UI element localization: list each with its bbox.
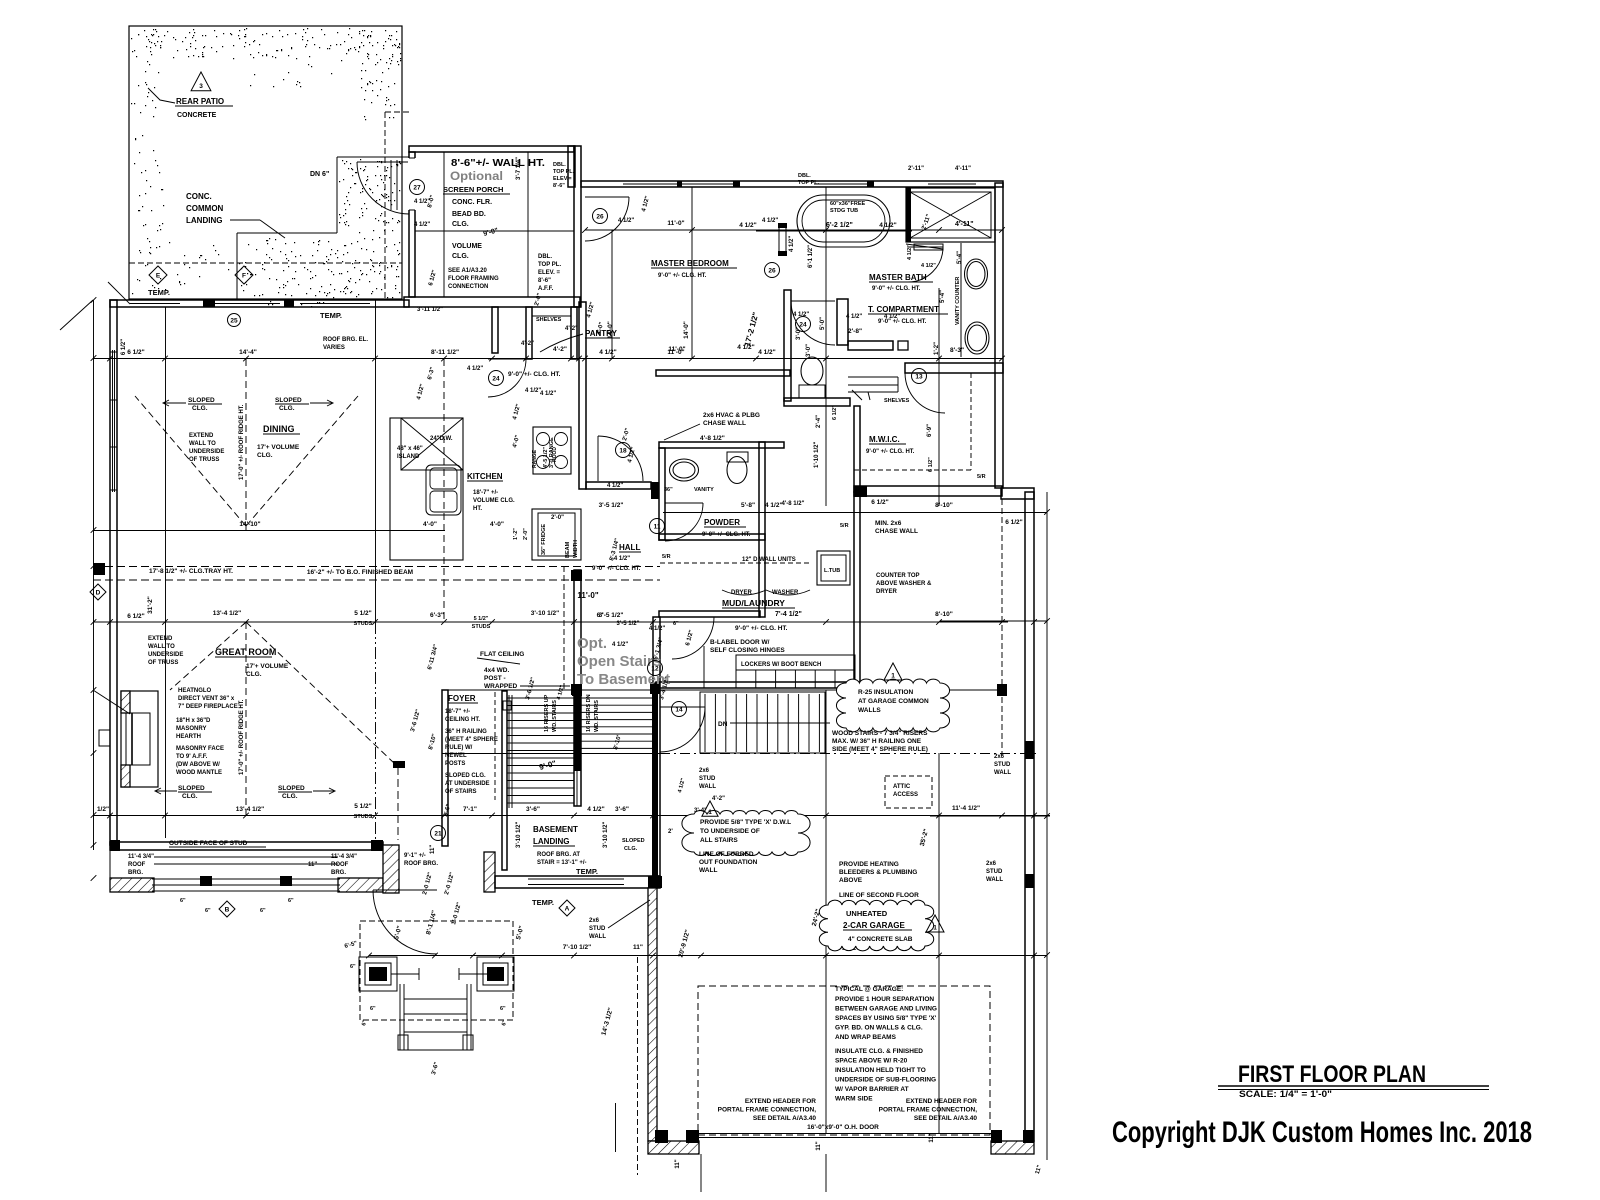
svg-text:WALLS: WALLS bbox=[858, 707, 881, 714]
svg-text:3'-10 1/2": 3'-10 1/2" bbox=[516, 822, 522, 848]
svg-text:11": 11" bbox=[633, 944, 643, 951]
svg-text:6 1/2": 6 1/2" bbox=[928, 457, 934, 472]
svg-text:11'-0": 11'-0" bbox=[668, 346, 685, 353]
svg-text:KITCHEN: KITCHEN bbox=[467, 472, 503, 481]
svg-text:SCREEN PORCH: SCREEN PORCH bbox=[443, 185, 503, 194]
svg-text:SELF CLOSING HINGES: SELF CLOSING HINGES bbox=[710, 647, 785, 654]
svg-text:TEMP.: TEMP. bbox=[576, 867, 598, 876]
svg-text:INSULATE CLG. & FINISHED: INSULATE CLG. & FINISHED bbox=[835, 1048, 923, 1055]
svg-text:4 1/2": 4 1/2" bbox=[607, 483, 623, 489]
svg-text:DN: DN bbox=[718, 721, 728, 728]
svg-text:16'-2" +/- TO B.O. FINISHED BE: 16'-2" +/- TO B.O. FINISHED BEAM bbox=[307, 569, 413, 576]
svg-text:RULE) W/: RULE) W/ bbox=[445, 745, 473, 751]
svg-text:CLG.: CLG. bbox=[452, 221, 469, 228]
svg-text:26: 26 bbox=[596, 213, 604, 220]
svg-text:6'-3": 6'-3" bbox=[430, 612, 444, 619]
svg-text:(DW ABOVE W/: (DW ABOVE W/ bbox=[176, 762, 220, 768]
svg-text:31'-2": 31'-2" bbox=[147, 596, 154, 614]
svg-text:2x6: 2x6 bbox=[699, 768, 710, 774]
svg-text:STAIR = 13'-1" +/-: STAIR = 13'-1" +/- bbox=[537, 860, 587, 866]
svg-text:CHASE WALL: CHASE WALL bbox=[875, 528, 918, 535]
svg-text:EXTEND: EXTEND bbox=[189, 433, 214, 439]
svg-text:DRYER: DRYER bbox=[731, 590, 752, 596]
svg-text:SHELVES: SHELVES bbox=[884, 398, 910, 404]
svg-text:5 1/2": 5 1/2" bbox=[354, 610, 372, 617]
svg-text:ACCESS: ACCESS bbox=[893, 792, 918, 798]
svg-text:4 1/2": 4 1/2" bbox=[612, 642, 628, 648]
svg-text:UNDERSIDE: UNDERSIDE bbox=[148, 652, 183, 658]
svg-text:HEATNGLO: HEATNGLO bbox=[178, 688, 212, 694]
svg-text:SLOPED: SLOPED bbox=[188, 397, 215, 404]
svg-text:ABOVE: ABOVE bbox=[839, 877, 863, 884]
svg-text:CLG.: CLG. bbox=[279, 405, 295, 412]
svg-text:GREAT ROOM: GREAT ROOM bbox=[215, 647, 276, 657]
svg-text:9'-0" +/- CLG. HT.: 9'-0" +/- CLG. HT. bbox=[508, 371, 561, 378]
svg-text:3'-5 1/2": 3'-5 1/2" bbox=[599, 612, 624, 619]
svg-text:11": 11" bbox=[308, 862, 317, 868]
svg-text:VOLUME: VOLUME bbox=[452, 243, 482, 250]
svg-text:REAR PATIO: REAR PATIO bbox=[176, 97, 224, 106]
svg-text:4 1/2": 4 1/2" bbox=[618, 218, 634, 224]
svg-text:9'-0" +/- CLG. HT.: 9'-0" +/- CLG. HT. bbox=[872, 286, 921, 292]
svg-text:12: 12 bbox=[651, 665, 659, 672]
svg-text:Copyright DJK Custom Homes Inc: Copyright DJK Custom Homes Inc. 2018 bbox=[1112, 1116, 1532, 1149]
svg-text:TO 9' A.F.F.: TO 9' A.F.F. bbox=[176, 754, 208, 760]
svg-text:R-25 INSULATION: R-25 INSULATION bbox=[858, 689, 913, 696]
svg-text:WALL TO: WALL TO bbox=[148, 644, 175, 650]
svg-text:TOP PL.: TOP PL. bbox=[798, 180, 820, 186]
svg-text:SIDE (MEET 4" SPHERE RULE): SIDE (MEET 4" SPHERE RULE) bbox=[832, 746, 928, 753]
svg-text:5/R: 5/R bbox=[840, 523, 849, 529]
svg-text:DBL.: DBL. bbox=[798, 173, 811, 179]
svg-text:LINE OF FURRED: LINE OF FURRED bbox=[699, 851, 754, 858]
svg-text:6": 6" bbox=[350, 964, 356, 970]
svg-text:17'-0" +/- ROOF RIDGE HT.: 17'-0" +/- ROOF RIDGE HT. bbox=[239, 404, 245, 480]
svg-text:WALL: WALL bbox=[994, 770, 1011, 776]
svg-text:BEAD BD.: BEAD BD. bbox=[452, 211, 486, 218]
svg-text:9'-0" +/- CLG. HT.: 9'-0" +/- CLG. HT. bbox=[866, 449, 915, 455]
svg-text:48" x 46": 48" x 46" bbox=[397, 446, 423, 452]
svg-text:BLEEDERS & PLUMBING: BLEEDERS & PLUMBING bbox=[839, 869, 917, 876]
svg-text:STUD: STUD bbox=[699, 776, 716, 782]
svg-text:4" CONCRETE SLAB: 4" CONCRETE SLAB bbox=[848, 936, 913, 943]
svg-text:4 1/2": 4 1/2" bbox=[467, 366, 483, 372]
svg-text:PROVIDE HEATING: PROVIDE HEATING bbox=[839, 861, 899, 868]
svg-text:14'-0": 14'-0" bbox=[683, 321, 690, 339]
svg-text:CHASE WALL: CHASE WALL bbox=[703, 420, 746, 427]
svg-text:VANITY: VANITY bbox=[694, 487, 714, 493]
svg-text:11'-4 3/4": 11'-4 3/4" bbox=[331, 854, 357, 860]
svg-text:WRAPPED: WRAPPED bbox=[484, 683, 518, 690]
svg-text:OUT FOUNDATION: OUT FOUNDATION bbox=[699, 859, 758, 866]
svg-text:8'-10": 8'-10" bbox=[935, 502, 953, 509]
svg-text:6": 6" bbox=[260, 908, 266, 914]
svg-text:3'-6": 3'-6" bbox=[615, 806, 629, 813]
svg-text:WOOD STAIRS - 7 3/4" RISERS: WOOD STAIRS - 7 3/4" RISERS bbox=[832, 730, 928, 737]
svg-text:FLAT CEILING: FLAT CEILING bbox=[480, 651, 524, 658]
svg-text:M.W.I.C.: M.W.I.C. bbox=[869, 435, 900, 444]
svg-text:18'-7" +/-: 18'-7" +/- bbox=[445, 709, 470, 715]
svg-text:3'-10 1/2": 3'-10 1/2" bbox=[531, 610, 559, 617]
svg-text:CONCRETE: CONCRETE bbox=[177, 112, 217, 119]
svg-text:A.F.F.: A.F.F. bbox=[538, 286, 554, 292]
svg-text:LANDING: LANDING bbox=[533, 837, 569, 846]
svg-text:F: F bbox=[242, 272, 246, 279]
svg-text:CLG.: CLG. bbox=[624, 846, 638, 852]
svg-text:STUD: STUD bbox=[986, 869, 1003, 875]
svg-text:3'-11 1/2": 3'-11 1/2" bbox=[417, 307, 443, 313]
svg-text:UNDERSIDE OF SUB-FLOORING: UNDERSIDE OF SUB-FLOORING bbox=[835, 1077, 936, 1084]
svg-text:TEMP.: TEMP. bbox=[148, 288, 170, 297]
svg-text:Open Stairs: Open Stairs bbox=[577, 653, 661, 670]
svg-text:4'-2": 4'-2" bbox=[521, 341, 534, 347]
svg-text:T. COMPARTMENT: T. COMPARTMENT bbox=[868, 305, 939, 314]
svg-text:1/2": 1/2" bbox=[97, 806, 109, 813]
svg-text:VOLUME CLG.: VOLUME CLG. bbox=[473, 498, 515, 504]
svg-text:ISLAND: ISLAND bbox=[397, 454, 420, 460]
svg-text:6'-1 1/2": 6'-1 1/2" bbox=[808, 245, 814, 268]
svg-text:4'-2": 4'-2" bbox=[712, 796, 725, 802]
svg-text:36" FRIDGE: 36" FRIDGE bbox=[541, 524, 547, 555]
svg-text:1'-10 1/2": 1'-10 1/2" bbox=[814, 442, 820, 468]
svg-text:ATTIC: ATTIC bbox=[893, 784, 911, 790]
svg-text:MASTER BATH: MASTER BATH bbox=[869, 273, 927, 282]
svg-text:2'-4": 2'-4" bbox=[816, 415, 822, 428]
svg-text:1'-2": 1'-2" bbox=[513, 528, 519, 540]
svg-text:TOP PL.: TOP PL. bbox=[553, 169, 575, 175]
svg-text:8'-6"+/- WALL HT.: 8'-6"+/- WALL HT. bbox=[451, 158, 545, 169]
svg-text:CLG.: CLG. bbox=[246, 671, 262, 678]
svg-text:WARM SIDE: WARM SIDE bbox=[835, 1096, 873, 1103]
svg-text:B: B bbox=[225, 906, 230, 913]
svg-text:9'-0" +/- CLG. HT.: 9'-0" +/- CLG. HT. bbox=[702, 532, 751, 538]
svg-text:3'-0": 3'-0" bbox=[806, 344, 812, 357]
svg-text:WD. STAIRS: WD. STAIRS bbox=[552, 700, 558, 732]
svg-text:26: 26 bbox=[768, 267, 776, 274]
svg-text:18'-7" +/-: 18'-7" +/- bbox=[473, 490, 498, 496]
svg-text:TO UNDERSIDE OF: TO UNDERSIDE OF bbox=[700, 828, 760, 835]
svg-text:E: E bbox=[156, 272, 161, 279]
svg-text:POST -: POST - bbox=[484, 675, 506, 682]
svg-text:SLOPED: SLOPED bbox=[278, 785, 305, 792]
svg-text:DBL.: DBL. bbox=[553, 162, 566, 168]
svg-text:Optional: Optional bbox=[450, 169, 503, 183]
svg-text:1: 1 bbox=[933, 925, 937, 932]
svg-text:W/ VAPOR BARRIER AT: W/ VAPOR BARRIER AT bbox=[835, 1086, 909, 1093]
svg-text:ROOF BRG. AT: ROOF BRG. AT bbox=[537, 852, 580, 858]
svg-text:2x6: 2x6 bbox=[589, 918, 600, 924]
svg-text:MIN. 2x6: MIN. 2x6 bbox=[875, 520, 902, 527]
svg-text:24: 24 bbox=[799, 321, 807, 328]
svg-text:ROOF: ROOF bbox=[331, 862, 349, 868]
svg-text:5/R: 5/R bbox=[977, 474, 986, 480]
svg-text:4 1/2": 4 1/2" bbox=[846, 314, 862, 320]
svg-text:3'-4": 3'-4" bbox=[694, 808, 707, 814]
svg-text:HALL: HALL bbox=[619, 543, 640, 552]
svg-text:4 1/2": 4 1/2" bbox=[739, 222, 757, 229]
svg-text:(MEET 4" SPHERE: (MEET 4" SPHERE bbox=[445, 737, 498, 743]
svg-text:3: 3 bbox=[199, 83, 203, 90]
svg-text:27: 27 bbox=[413, 184, 421, 191]
svg-text:CLG.: CLG. bbox=[452, 253, 469, 260]
svg-text:BRG.: BRG. bbox=[128, 870, 143, 876]
svg-text:WALL: WALL bbox=[589, 934, 606, 940]
svg-text:8'-10": 8'-10" bbox=[935, 611, 953, 618]
svg-text:EXTEND HEADER FOR: EXTEND HEADER FOR bbox=[745, 1098, 816, 1105]
svg-text:1: 1 bbox=[891, 673, 895, 680]
svg-text:D: D bbox=[96, 589, 101, 596]
svg-text:17'+ VOLUME: 17'+ VOLUME bbox=[246, 663, 289, 670]
svg-text:OF STAIRS: OF STAIRS bbox=[445, 789, 477, 795]
svg-text:5/R: 5/R bbox=[662, 554, 671, 560]
svg-text:2'-8": 2'-8" bbox=[848, 328, 862, 335]
svg-text:MUD/LAUNDRY: MUD/LAUNDRY bbox=[722, 598, 785, 608]
svg-text:SEE A1/A3.20: SEE A1/A3.20 bbox=[448, 268, 487, 274]
svg-text:11": 11" bbox=[929, 1133, 935, 1142]
svg-text:EXTEND HEADER FOR: EXTEND HEADER FOR bbox=[906, 1098, 977, 1105]
svg-text:11'-4 1/2": 11'-4 1/2" bbox=[952, 805, 980, 812]
svg-text:ELEV. =: ELEV. = bbox=[538, 270, 560, 276]
svg-text:BETWEEN GARAGE AND LIVING: BETWEEN GARAGE AND LIVING bbox=[835, 1006, 937, 1013]
svg-text:4'-0": 4'-0" bbox=[490, 521, 504, 528]
svg-text:BASEMENT: BASEMENT bbox=[533, 825, 578, 834]
svg-text:2x6 HVAC & PLBG: 2x6 HVAC & PLBG bbox=[703, 412, 760, 419]
svg-text:6'-9": 6'-9" bbox=[927, 424, 933, 437]
svg-text:4 1/2": 4 1/2" bbox=[414, 222, 430, 228]
svg-text:6 1/2": 6 1/2" bbox=[871, 499, 889, 506]
svg-text:6 1/2": 6 1/2" bbox=[127, 613, 145, 620]
svg-text:AT GARAGE COMMON: AT GARAGE COMMON bbox=[858, 698, 929, 705]
svg-text:7" DEEP FIREPLACE: 7" DEEP FIREPLACE bbox=[178, 704, 238, 710]
svg-text:16 RISERS UP: 16 RISERS UP bbox=[544, 694, 550, 732]
svg-text:STUDS: STUDS bbox=[354, 621, 373, 627]
svg-text:1'-2": 1'-2" bbox=[934, 342, 940, 355]
svg-text:BRG.: BRG. bbox=[331, 870, 346, 876]
svg-text:4'-2": 4'-2" bbox=[565, 326, 578, 332]
svg-text:5'-4": 5'-4" bbox=[940, 290, 946, 303]
svg-text:4 1/2": 4 1/2" bbox=[540, 391, 556, 397]
svg-text:18"H x 36"D: 18"H x 36"D bbox=[176, 718, 211, 724]
svg-text:8'-6": 8'-6" bbox=[538, 278, 551, 284]
svg-text:STUD: STUD bbox=[589, 926, 606, 932]
svg-text:SLOPED: SLOPED bbox=[622, 838, 645, 844]
svg-text:4'-8 1/2": 4'-8 1/2" bbox=[700, 435, 725, 442]
svg-text:ROOF BRG.: ROOF BRG. bbox=[404, 861, 438, 867]
svg-text:WALL: WALL bbox=[986, 877, 1003, 883]
svg-text:RANGE: RANGE bbox=[532, 449, 538, 468]
svg-text:9'-0" +/- CLG. HT.: 9'-0" +/- CLG. HT. bbox=[658, 273, 707, 279]
svg-text:4 1/2": 4 1/2" bbox=[762, 218, 778, 224]
svg-text:MAX. W/ 36" H RAILING ONE: MAX. W/ 36" H RAILING ONE bbox=[832, 738, 922, 745]
svg-text:SEE DETAIL A/A3.40: SEE DETAIL A/A3.40 bbox=[914, 1115, 977, 1122]
svg-text:11: 11 bbox=[654, 523, 661, 530]
svg-text:3'-5 1/2": 3'-5 1/2" bbox=[617, 621, 640, 627]
svg-text:6": 6" bbox=[500, 1006, 506, 1012]
svg-text:8'-3": 8'-3" bbox=[950, 347, 964, 354]
svg-text:2': 2' bbox=[668, 829, 673, 835]
svg-text:9'-0" +/- CLG. HT.: 9'-0" +/- CLG. HT. bbox=[592, 566, 641, 572]
svg-text:A: A bbox=[565, 905, 570, 912]
svg-text:13'-4 1/2": 13'-4 1/2" bbox=[213, 610, 241, 617]
svg-text:18: 18 bbox=[619, 447, 627, 454]
svg-text:9'-0" +/- CLG. HT.: 9'-0" +/- CLG. HT. bbox=[735, 625, 788, 632]
svg-text:SHELVES: SHELVES bbox=[536, 317, 562, 323]
svg-text:Opt.: Opt. bbox=[577, 635, 607, 652]
svg-text:WALL: WALL bbox=[699, 867, 717, 874]
svg-text:4 1/2": 4 1/2" bbox=[649, 626, 665, 632]
svg-text:8'-6": 8'-6" bbox=[553, 183, 565, 189]
svg-text:4'-11": 4'-11" bbox=[955, 166, 971, 172]
svg-text:ELEV.=: ELEV.= bbox=[553, 176, 572, 182]
svg-text:PROVIDE 5/8" TYPE 'X' D.W.L: PROVIDE 5/8" TYPE 'X' D.W.L bbox=[700, 819, 791, 826]
svg-text:2x6: 2x6 bbox=[986, 861, 997, 867]
svg-text:3'-10 1/2": 3'-10 1/2" bbox=[603, 822, 609, 848]
svg-text:4'-11": 4'-11" bbox=[955, 221, 974, 228]
svg-text:UNDERSIDE: UNDERSIDE bbox=[189, 449, 224, 455]
svg-text:4 1/2": 4 1/2" bbox=[758, 349, 776, 356]
svg-text:SLOPED CLG.: SLOPED CLG. bbox=[445, 773, 486, 779]
svg-text:3'-7 1/4": 3'-7 1/4" bbox=[516, 157, 522, 180]
svg-text:3'-6": 3'-6" bbox=[526, 806, 540, 813]
svg-text:4 1/2": 4 1/2" bbox=[587, 806, 605, 813]
svg-text:4x4 WD.: 4x4 WD. bbox=[484, 667, 509, 674]
svg-text:CLG.: CLG. bbox=[192, 405, 208, 412]
svg-text:6 1/2": 6 1/2" bbox=[121, 339, 127, 355]
svg-text:PORTAL FRAME CONNECTION,: PORTAL FRAME CONNECTION, bbox=[718, 1107, 817, 1114]
svg-text:WIDTH: WIDTH bbox=[573, 540, 579, 558]
svg-text:21: 21 bbox=[434, 830, 442, 837]
svg-text:NEWEL: NEWEL bbox=[445, 753, 467, 759]
svg-text:4 1/2": 4 1/2" bbox=[614, 556, 630, 562]
svg-text:4 1/2": 4 1/2" bbox=[599, 349, 617, 356]
svg-text:WALL: WALL bbox=[699, 784, 716, 790]
svg-text:6": 6" bbox=[370, 1006, 376, 1012]
svg-text:13: 13 bbox=[915, 373, 923, 380]
svg-text:STUDS: STUDS bbox=[472, 624, 491, 630]
svg-text:OUTSIDE FACE OF STUD: OUTSIDE FACE OF STUD bbox=[169, 840, 248, 847]
svg-text:6 1/2": 6 1/2" bbox=[1005, 519, 1023, 526]
svg-text:13'-4 1/2": 13'-4 1/2" bbox=[236, 806, 264, 813]
svg-text:17'-8 1/2" +/- CLG.TRAY HT.: 17'-8 1/2" +/- CLG.TRAY HT. bbox=[149, 568, 233, 575]
svg-text:POWDER: POWDER bbox=[704, 518, 740, 527]
svg-text:5'-8": 5'-8" bbox=[741, 502, 755, 509]
svg-text:AND WRAP BEAMS: AND WRAP BEAMS bbox=[835, 1034, 897, 1041]
svg-text:14: 14 bbox=[675, 706, 683, 713]
svg-text:2-CAR GARAGE: 2-CAR GARAGE bbox=[843, 921, 905, 930]
svg-text:MASONRY: MASONRY bbox=[176, 726, 206, 732]
svg-text:2x6: 2x6 bbox=[994, 754, 1005, 760]
svg-text:BEAM: BEAM bbox=[565, 541, 571, 558]
svg-text:14'-4": 14'-4" bbox=[239, 349, 257, 356]
svg-text:11": 11" bbox=[675, 1159, 681, 1168]
svg-text:To Basement: To Basement bbox=[577, 671, 670, 688]
svg-text:4 1/2": 4 1/2" bbox=[879, 222, 897, 229]
svg-text:UNHEATED: UNHEATED bbox=[846, 909, 888, 918]
svg-text:STDG TUB: STDG TUB bbox=[830, 208, 858, 214]
svg-text:24: 24 bbox=[492, 375, 500, 382]
svg-text:5 1/2": 5 1/2" bbox=[354, 803, 372, 810]
svg-text:11'-0": 11'-0" bbox=[667, 220, 684, 227]
svg-text:B-LABEL DOOR W/: B-LABEL DOOR W/ bbox=[710, 639, 770, 646]
svg-text:5'-4": 5'-4" bbox=[957, 251, 963, 264]
svg-text:14'-10": 14'-10" bbox=[239, 521, 260, 528]
svg-text:6": 6" bbox=[673, 621, 679, 627]
svg-text:DIRECT VENT 36" x: DIRECT VENT 36" x bbox=[178, 696, 235, 702]
svg-text:SCALE: 1/4" = 1'-0": SCALE: 1/4" = 1'-0" bbox=[1239, 1089, 1332, 1099]
svg-text:WOOD MANTLE: WOOD MANTLE bbox=[176, 770, 222, 776]
svg-text:4 1/2": 4 1/2" bbox=[765, 502, 783, 509]
svg-text:OF TRUSS: OF TRUSS bbox=[189, 457, 219, 463]
svg-text:LINE OF SECOND FLOOR: LINE OF SECOND FLOOR bbox=[839, 892, 919, 899]
svg-text:DN 6": DN 6" bbox=[310, 171, 329, 178]
svg-text:WALL TO: WALL TO bbox=[189, 441, 216, 447]
svg-text:11": 11" bbox=[816, 1141, 822, 1150]
svg-text:PROVIDE 1 HOUR SEPARATION: PROVIDE 1 HOUR SEPARATION bbox=[835, 996, 934, 1003]
svg-text:STUD: STUD bbox=[994, 762, 1011, 768]
svg-text:16'-0"x9'-0" O.H. DOOR: 16'-0"x9'-0" O.H. DOOR bbox=[807, 1124, 879, 1131]
svg-text:17'+ VOLUME: 17'+ VOLUME bbox=[257, 444, 300, 451]
svg-text:OF TRUSS: OF TRUSS bbox=[148, 660, 178, 666]
svg-text:STUDS: STUDS bbox=[354, 814, 373, 820]
svg-text:FLOOR FRAMING: FLOOR FRAMING bbox=[448, 276, 499, 282]
svg-text:GYP. BD. ON WALLS & CLG.: GYP. BD. ON WALLS & CLG. bbox=[835, 1025, 923, 1032]
svg-text:DRYER: DRYER bbox=[876, 589, 897, 595]
svg-text:FOYER: FOYER bbox=[448, 694, 476, 703]
svg-text:SPACE ABOVE W/ R-20: SPACE ABOVE W/ R-20 bbox=[835, 1058, 908, 1065]
svg-text:25: 25 bbox=[230, 317, 238, 324]
svg-text:TEMP.: TEMP. bbox=[532, 898, 554, 907]
svg-text:LOCKERS W/ BOOT BENCH: LOCKERS W/ BOOT BENCH bbox=[741, 662, 821, 668]
svg-text:FIRST FLOOR PLAN: FIRST FLOOR PLAN bbox=[1238, 1061, 1426, 1088]
svg-text:16 RISERS DN: 16 RISERS DN bbox=[586, 694, 592, 732]
svg-text:L.TUB: L.TUB bbox=[824, 568, 840, 574]
svg-text:AT UNDERSIDE: AT UNDERSIDE bbox=[445, 781, 490, 787]
svg-text:ABOVE WASHER &: ABOVE WASHER & bbox=[876, 581, 932, 587]
svg-text:ALL STAIRS: ALL STAIRS bbox=[700, 837, 738, 844]
svg-text:CLG.: CLG. bbox=[257, 452, 273, 459]
svg-text:12" D WALL UNITS: 12" D WALL UNITS bbox=[742, 557, 796, 563]
svg-text:6 1/2": 6 1/2" bbox=[832, 405, 838, 420]
svg-text:CONC.: CONC. bbox=[186, 192, 212, 201]
svg-text:DINING: DINING bbox=[263, 424, 295, 434]
svg-text:SPACES BY USING 5/8" TYPE 'X': SPACES BY USING 5/8" TYPE 'X' bbox=[835, 1015, 937, 1022]
svg-text:POSTS: POSTS bbox=[445, 761, 465, 767]
svg-text:4'-8 1/2": 4'-8 1/2" bbox=[782, 501, 805, 507]
svg-text:ROOF BRG. EL.: ROOF BRG. EL. bbox=[323, 337, 368, 343]
svg-text:9'-1" +/-: 9'-1" +/- bbox=[404, 853, 426, 859]
svg-text:4 1/2": 4 1/2" bbox=[884, 314, 900, 320]
svg-text:TOP PL.: TOP PL. bbox=[538, 262, 561, 268]
svg-text:3'-0 RANGE: 3'-0 RANGE bbox=[549, 437, 555, 468]
svg-text:17'-0" +/- ROOF RIDGE HT.: 17'-0" +/- ROOF RIDGE HT. bbox=[239, 699, 245, 775]
svg-text:2'-11": 2'-11" bbox=[908, 166, 924, 172]
svg-text:EXTEND: EXTEND bbox=[148, 636, 173, 642]
svg-text:24"D.W.: 24"D.W. bbox=[430, 436, 453, 442]
svg-text:MASONRY FACE: MASONRY FACE bbox=[176, 746, 224, 752]
svg-text:4'-2": 4'-2" bbox=[553, 346, 567, 353]
svg-text:3'-5 1/2": 3'-5 1/2" bbox=[599, 502, 624, 509]
svg-text:LANDING: LANDING bbox=[186, 216, 222, 225]
svg-text:1: 1 bbox=[708, 809, 712, 816]
svg-text:CONC. FLR.: CONC. FLR. bbox=[452, 199, 492, 206]
svg-text:11": 11" bbox=[430, 845, 436, 854]
svg-text:DBL.: DBL. bbox=[538, 254, 552, 260]
svg-text:HEARTH: HEARTH bbox=[176, 734, 201, 740]
svg-text:2'-0": 2'-0" bbox=[551, 515, 564, 521]
svg-text:WASHER: WASHER bbox=[772, 590, 799, 596]
svg-text:8'-11 1/2": 8'-11 1/2" bbox=[431, 349, 459, 356]
svg-text:7'-10 1/2": 7'-10 1/2" bbox=[563, 944, 591, 951]
